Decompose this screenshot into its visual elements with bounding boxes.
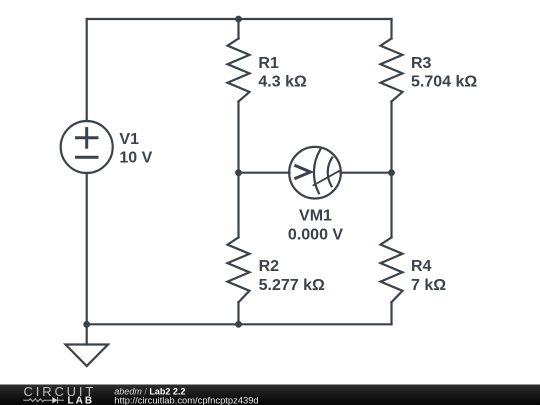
svg-text:5.277 kΩ: 5.277 kΩ	[259, 277, 325, 294]
svg-text:R2: R2	[259, 258, 280, 275]
svg-text:5.704 kΩ: 5.704 kΩ	[411, 73, 477, 90]
svg-text:R3: R3	[411, 55, 432, 72]
wire voltmeter right	[341, 172, 392, 174]
wire left vertical top (to V1)	[86, 19, 88, 121]
VM1 dial arc inner	[328, 158, 332, 187]
wire middle branch mid node to R2	[237, 173, 239, 238]
ground	[66, 345, 109, 367]
node bottom-left junction	[83, 321, 90, 328]
wire right branch R4 bottom lead	[390, 302, 392, 324]
node bottom-mid junction	[235, 321, 242, 328]
svg-text:LAB: LAB	[68, 396, 95, 405]
svg-text:10 V: 10 V	[119, 150, 152, 167]
VM1 dial arc outer	[314, 150, 320, 194]
wire voltmeter left	[239, 172, 290, 174]
V1 plus sign	[77, 129, 98, 148]
wire left vertical bottom (V1 to bottom rail)	[86, 173, 88, 324]
node top junction	[235, 16, 242, 23]
VM1 needle	[314, 171, 340, 185]
svg-text:R4: R4	[411, 258, 432, 275]
svg-text:4.3 kΩ: 4.3 kΩ	[258, 73, 307, 90]
svg-text:V1: V1	[119, 131, 139, 148]
node mid-right junction	[388, 169, 395, 176]
svg-text:http://circuitlab.com/cpfncptp: http://circuitlab.com/cpfncptpz439d	[114, 394, 258, 405]
svg-text:0.000 V: 0.000 V	[288, 226, 343, 243]
wire middle branch R1 to mid node	[237, 102, 239, 173]
wire ground stub	[86, 324, 88, 344]
V1 minus sign	[77, 156, 98, 159]
wire right branch mid node to R4	[390, 173, 392, 238]
resistor R3	[381, 39, 403, 102]
svg-text:7 kΩ: 7 kΩ	[411, 277, 446, 294]
resistor R4	[381, 237, 403, 302]
node mid-left junction	[235, 169, 242, 176]
wire right branch top lead	[390, 19, 392, 39]
wire middle branch top lead	[237, 19, 239, 39]
voltage source V1 body	[61, 121, 113, 173]
wire middle branch R2 bottom lead	[237, 302, 239, 324]
wire top horizontal	[87, 18, 392, 20]
svg-text:R1: R1	[258, 55, 279, 72]
resistor R1	[228, 39, 250, 102]
voltmeter VM1 body	[289, 147, 341, 199]
wire right branch R3 to mid node	[390, 102, 392, 173]
resistor R2	[228, 237, 250, 302]
logo diode triangle	[52, 397, 57, 404]
wire bottom horizontal	[87, 323, 392, 325]
svg-text:VM1: VM1	[299, 208, 332, 225]
VM1 greater-than mark	[296, 166, 311, 178]
logo resistor squiggle and diode	[23, 397, 64, 404]
